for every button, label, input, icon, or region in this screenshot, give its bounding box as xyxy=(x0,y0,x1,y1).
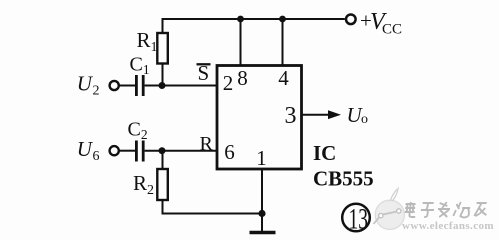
svg-text:4: 4 xyxy=(278,66,289,90)
wire R1 bottom to node xyxy=(162,64,164,86)
node C junction bottom xyxy=(258,210,265,217)
wire C2 to pin 6 xyxy=(145,150,217,152)
node A junction C1/R1 xyxy=(159,82,166,89)
svg-text:13: 13 xyxy=(349,203,369,236)
node junction pin4 on rail xyxy=(279,16,286,23)
resistor R2 xyxy=(157,169,168,200)
svg-text:IC: IC xyxy=(313,141,336,165)
terminal U6 xyxy=(110,146,119,155)
svg-text:o: o xyxy=(361,112,368,127)
wire pin 3 output xyxy=(302,114,332,116)
svg-text:CB555: CB555 xyxy=(313,167,374,191)
wire top rail xyxy=(163,19,345,33)
svg-text:3: 3 xyxy=(285,103,297,129)
node B junction C2/R2 xyxy=(159,147,166,154)
wire pin 8 drop xyxy=(240,19,242,66)
svg-text:U: U xyxy=(77,137,94,161)
svg-text:R2: R2 xyxy=(133,171,154,198)
svg-text:C2: C2 xyxy=(128,119,148,143)
svg-text:8: 8 xyxy=(237,66,248,90)
svg-text:2: 2 xyxy=(93,84,100,99)
watermark text 电子发烧友 xyxy=(404,202,488,218)
svg-text:2: 2 xyxy=(223,71,234,95)
svg-text:6: 6 xyxy=(93,149,100,164)
output arrow Uo xyxy=(328,110,341,119)
watermark logo xyxy=(374,189,405,230)
svg-text:CC: CC xyxy=(382,22,402,38)
svg-text:C1: C1 xyxy=(130,54,150,78)
terminal U2 xyxy=(110,81,119,90)
svg-text:www.elecfans.com: www.elecfans.com xyxy=(402,220,494,232)
node 13 figure number circled xyxy=(342,204,370,232)
IC U1 CB555 box xyxy=(217,66,302,170)
svg-text:1: 1 xyxy=(256,146,267,170)
svg-text:6: 6 xyxy=(224,140,235,164)
ground xyxy=(250,231,276,235)
wire R2 bottom xyxy=(163,200,263,214)
wire U6 to C2 xyxy=(119,150,135,152)
power terminal +VCC xyxy=(346,14,356,24)
svg-text:R: R xyxy=(200,133,214,155)
wire U2 to C1 xyxy=(119,85,135,87)
wire C1 to pin 2 xyxy=(145,85,217,87)
svg-text:U: U xyxy=(77,72,94,96)
wire node B to R2 xyxy=(162,151,164,169)
wire pin 1 to ground xyxy=(261,169,263,232)
resistor R1 xyxy=(157,33,168,64)
capacitor C2 xyxy=(136,141,143,162)
wire pin 4 drop xyxy=(282,19,284,66)
node junction pin8 on rail xyxy=(237,16,244,23)
capacitor C1 xyxy=(136,75,143,96)
svg-text:R1: R1 xyxy=(137,28,158,55)
